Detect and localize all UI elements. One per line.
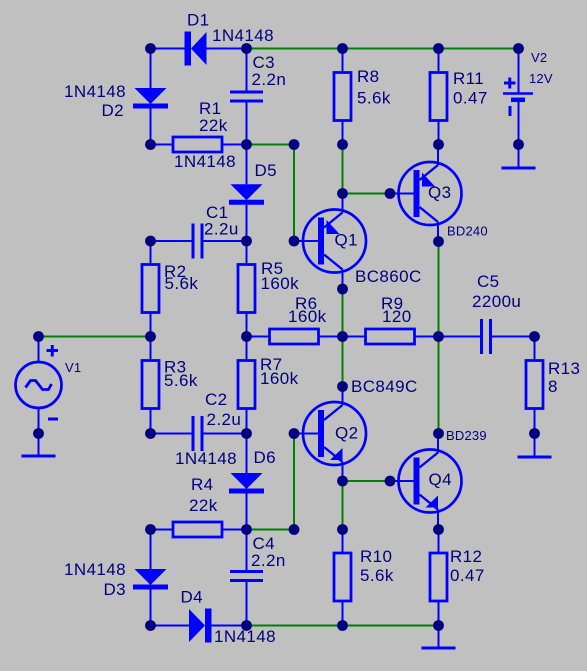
wire V1 to input node bbox=[39, 336, 151, 338]
svg-text:0.47: 0.47 bbox=[453, 89, 488, 108]
svg-text:D1: D1 bbox=[187, 11, 210, 30]
svg-text:BD240: BD240 bbox=[447, 224, 488, 239]
resistor R10 bbox=[334, 530, 351, 626]
junction bbox=[529, 428, 540, 439]
wire mid rail to Q4 collector bbox=[438, 337, 440, 434]
diode D1 bbox=[151, 32, 247, 66]
junction bbox=[241, 428, 252, 439]
svg-text:0.47: 0.47 bbox=[450, 566, 485, 585]
svg-text:Q3: Q3 bbox=[428, 183, 451, 202]
capacitor C5 bbox=[439, 319, 535, 354]
junction bbox=[337, 188, 348, 199]
svg-text:1N4148: 1N4148 bbox=[64, 560, 126, 579]
junction bbox=[33, 331, 44, 342]
junction bbox=[433, 620, 444, 631]
junction bbox=[433, 524, 444, 535]
svg-text:1N4148: 1N4148 bbox=[174, 152, 236, 171]
resistor R1 bbox=[151, 137, 247, 152]
junction bbox=[433, 139, 444, 150]
svg-text:22k: 22k bbox=[189, 496, 218, 515]
svg-text:160k: 160k bbox=[261, 274, 300, 293]
junction bbox=[433, 43, 444, 54]
junction bbox=[337, 620, 348, 631]
wire Q2 emitter to Q4 base bbox=[343, 480, 391, 482]
svg-text:Q4: Q4 bbox=[429, 470, 452, 489]
svg-text:Q1: Q1 bbox=[335, 231, 358, 250]
svg-text:2.2u: 2.2u bbox=[207, 410, 242, 429]
svg-text:R13: R13 bbox=[548, 359, 580, 378]
ground V2 bbox=[502, 145, 536, 169]
svg-text:Q2: Q2 bbox=[335, 424, 358, 443]
svg-text:5.6k: 5.6k bbox=[164, 371, 198, 390]
capacitor C1 bbox=[151, 224, 247, 259]
junction bbox=[337, 139, 348, 150]
capacitor C2 bbox=[151, 416, 247, 451]
resistor R8 bbox=[334, 49, 351, 145]
diode D5 bbox=[229, 145, 264, 242]
junction bbox=[241, 43, 252, 54]
wire Q2 base drop bbox=[293, 434, 295, 530]
transistor Q1 (PNP) bbox=[294, 194, 366, 290]
resistor R7 bbox=[238, 337, 255, 434]
junction bbox=[145, 43, 156, 54]
wire R8 to Q3 base row bbox=[342, 145, 344, 194]
svg-text:1N4148: 1N4148 bbox=[175, 449, 237, 468]
svg-text:D4: D4 bbox=[181, 588, 204, 607]
svg-text:2.2u: 2.2u bbox=[204, 220, 239, 239]
junction bbox=[513, 139, 524, 150]
junction bbox=[241, 331, 252, 342]
svg-text:R11: R11 bbox=[453, 69, 484, 88]
junction bbox=[145, 428, 156, 439]
svg-text:V1: V1 bbox=[65, 360, 81, 375]
svg-text:120: 120 bbox=[382, 307, 412, 326]
junction bbox=[337, 43, 348, 54]
ground output bbox=[422, 626, 456, 649]
resistor R4 bbox=[151, 522, 247, 537]
svg-text:D6: D6 bbox=[254, 448, 277, 467]
resistor R12 bbox=[430, 530, 447, 626]
junction bbox=[241, 524, 252, 535]
wire R4 node to Q2 base corner bbox=[247, 529, 295, 531]
svg-text:BC860C: BC860C bbox=[355, 267, 422, 286]
svg-text:8: 8 bbox=[548, 377, 558, 396]
transistor Q4 (NPN) bbox=[390, 434, 462, 530]
svg-text:BC849C: BC849C bbox=[351, 377, 418, 396]
ground R13 bbox=[518, 434, 552, 458]
junction bbox=[241, 620, 252, 631]
capacitor C4 bbox=[230, 530, 263, 626]
capacitor C3 bbox=[230, 49, 263, 145]
resistor R13 bbox=[526, 337, 543, 434]
svg-text:R12: R12 bbox=[450, 547, 482, 566]
svg-text:12V: 12V bbox=[529, 71, 553, 86]
diode D3 bbox=[133, 530, 168, 626]
svg-text:R8: R8 bbox=[357, 67, 380, 86]
svg-text:1N4148: 1N4148 bbox=[212, 26, 274, 45]
junction bbox=[241, 236, 252, 247]
wire bottom rail bbox=[247, 625, 439, 627]
svg-text:D3: D3 bbox=[103, 580, 126, 599]
resistor R2 bbox=[142, 241, 159, 337]
wire Q3 base feed bbox=[343, 193, 391, 195]
junction bbox=[289, 236, 300, 247]
svg-text:2.2n: 2.2n bbox=[252, 70, 287, 89]
resistor R3 bbox=[142, 337, 159, 434]
svg-text:V2: V2 bbox=[531, 50, 547, 65]
ground V1 bbox=[22, 434, 56, 457]
resistor R5 bbox=[238, 241, 255, 337]
svg-text:BD239: BD239 bbox=[446, 428, 487, 443]
junction bbox=[289, 139, 300, 150]
transistor Q3 (PNP) bbox=[390, 145, 462, 242]
junction bbox=[33, 428, 44, 439]
junction bbox=[145, 620, 156, 631]
wire V+ rail bbox=[247, 48, 519, 50]
svg-text:R4: R4 bbox=[191, 475, 214, 494]
resistor R9 bbox=[343, 329, 439, 344]
svg-text:5.6k: 5.6k bbox=[357, 89, 391, 108]
junction bbox=[289, 524, 300, 535]
svg-text:C2: C2 bbox=[205, 390, 228, 409]
junction bbox=[385, 188, 396, 199]
svg-text:22k: 22k bbox=[199, 116, 228, 135]
transistor Q2 (NPN) bbox=[294, 387, 366, 482]
wire Q1 collector to mid rail bbox=[342, 289, 344, 337]
svg-text:D5: D5 bbox=[255, 161, 278, 180]
svg-text:2.2n: 2.2n bbox=[251, 551, 286, 570]
svg-text:5.6k: 5.6k bbox=[360, 566, 394, 585]
svg-text:5.6k: 5.6k bbox=[165, 274, 199, 293]
junction bbox=[145, 139, 156, 150]
junction bbox=[433, 236, 444, 247]
junction bbox=[337, 381, 348, 392]
junction bbox=[241, 139, 252, 150]
diode D4 bbox=[151, 609, 247, 643]
svg-text:1N4148: 1N4148 bbox=[64, 82, 126, 101]
wire Q3 collector to mid rail bbox=[438, 242, 440, 337]
junction bbox=[337, 476, 348, 487]
junction bbox=[145, 524, 156, 535]
svg-text:160k: 160k bbox=[260, 369, 299, 388]
battery V2 bbox=[503, 49, 533, 145]
junction bbox=[433, 428, 444, 439]
svg-text:C5: C5 bbox=[477, 272, 500, 291]
svg-text:D2: D2 bbox=[101, 101, 124, 120]
junction bbox=[337, 331, 348, 342]
wire Q1 base drop bbox=[293, 145, 295, 242]
svg-text:2200u: 2200u bbox=[472, 292, 521, 311]
svg-text:160k: 160k bbox=[288, 307, 327, 326]
svg-text:R10: R10 bbox=[360, 547, 392, 566]
junction bbox=[145, 331, 156, 342]
junction bbox=[289, 428, 300, 439]
junction bbox=[145, 236, 156, 247]
resistor R6 bbox=[247, 329, 343, 344]
junction bbox=[529, 331, 540, 342]
resistor R11 bbox=[430, 49, 447, 145]
junction bbox=[433, 331, 444, 342]
wire mid rail to Q2 collector bbox=[342, 337, 344, 387]
diode D6 bbox=[229, 434, 264, 530]
junction bbox=[385, 476, 396, 487]
diode D2 bbox=[133, 49, 168, 145]
junction bbox=[337, 284, 348, 295]
voltage source V1 bbox=[16, 337, 62, 434]
wire Q2 emitter to R10 bbox=[342, 481, 344, 530]
junction bbox=[337, 524, 348, 535]
wire R1 node to Q1 base corner bbox=[247, 144, 295, 146]
junction bbox=[513, 43, 524, 54]
